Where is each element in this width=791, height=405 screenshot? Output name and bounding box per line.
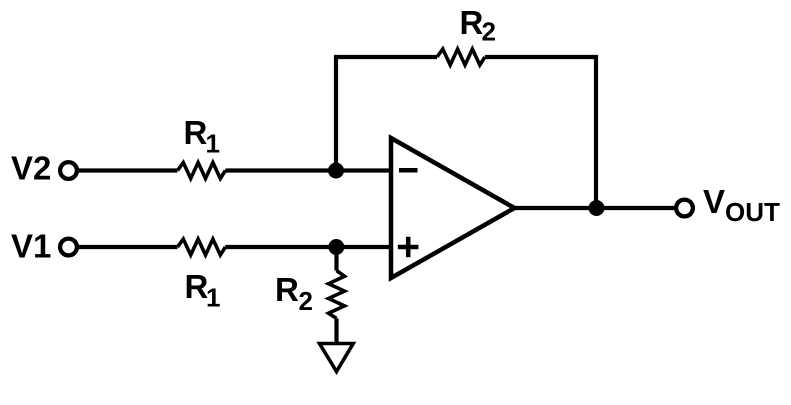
- svg-text:1: 1: [206, 129, 220, 159]
- label R1 (top): [184, 114, 220, 159]
- node A (inverting input junction): [328, 163, 344, 179]
- wire (node B down to R2): [334, 247, 338, 271]
- resistor R2 (feedback): [437, 49, 485, 65]
- svg-text:OUT: OUT: [725, 197, 780, 227]
- wire (feedback top, left of R2): [334, 55, 437, 59]
- wire (R2 to ground): [334, 318, 338, 343]
- label R2 (bottom): [275, 271, 313, 316]
- label R2 (feedback): [460, 4, 496, 47]
- svg-text:2: 2: [299, 286, 313, 316]
- wire (feedback right vertical down to output node): [594, 55, 598, 208]
- svg-text:V: V: [703, 183, 725, 220]
- wire (feedback top, right of R2): [485, 55, 598, 59]
- svg-text:2: 2: [482, 17, 496, 47]
- svg-text:R: R: [460, 4, 484, 41]
- wire (feedback left vertical): [334, 57, 338, 171]
- wire (R1 top to op-amp inverting input): [225, 168, 391, 172]
- resistor R2 (to ground): [329, 271, 345, 319]
- resistor R1 (top): [178, 163, 226, 179]
- svg-text:1: 1: [206, 283, 220, 313]
- svg-text:R: R: [184, 114, 208, 151]
- node B (non-inverting input junction): [328, 239, 344, 255]
- svg-text:V1: V1: [11, 228, 51, 265]
- svg-text:V2: V2: [11, 150, 51, 187]
- wire (V1 terminal to R1 bottom): [77, 245, 178, 249]
- ground: [320, 344, 354, 372]
- label VOUT: [703, 183, 780, 227]
- wire (op-amp output to VOUT terminal): [515, 206, 677, 210]
- svg-text:R: R: [275, 271, 299, 308]
- wire (R1 bottom to op-amp non-inverting input): [225, 245, 391, 249]
- label R1 (bottom): [185, 268, 221, 313]
- node C (output node): [589, 200, 605, 216]
- input terminal V2: [60, 162, 77, 179]
- input terminal V1: [60, 239, 77, 256]
- resistor R1 (bottom): [178, 239, 226, 255]
- output terminal VOUT: [676, 200, 693, 217]
- svg-text:R: R: [185, 268, 209, 305]
- wire (V2 terminal to R1 top): [77, 168, 178, 172]
- op-amp U1: [391, 138, 515, 278]
